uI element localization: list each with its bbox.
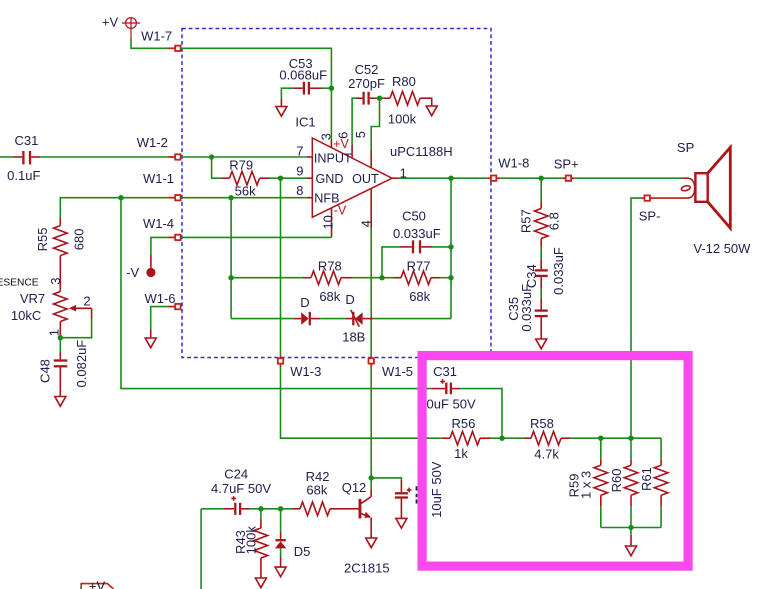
svg-text:PRESENCE: PRESENCE [0,278,39,289]
capacitor C48 [54,338,68,397]
svg-text:R58: R58 [530,416,554,431]
svg-text:+V: +V [89,579,106,589]
wire C24 left column [200,509,202,589]
wire W1-7 row [131,39,169,49]
wire C53 right [322,87,332,89]
svg-text:8: 8 [296,183,303,198]
node D5 top junction [278,506,283,511]
capacitor C52 [356,92,376,105]
node R43 top junction [258,506,263,511]
pin W1-7 [169,46,181,51]
resistor R80 [384,91,432,106]
node R77/out column junction [448,275,453,280]
svg-text:Q12: Q12 [342,480,367,495]
wiper wire [60,318,91,338]
magenta highlight box [422,356,688,566]
svg-text:R60: R60 [609,468,624,492]
resistor R42 [292,502,359,516]
svg-text:9: 9 [296,163,303,178]
svg-text:W1-4: W1-4 [143,216,174,231]
dashed selection box [182,29,491,358]
svg-text:+V: +V [102,15,119,30]
svg-text:C31: C31 [14,133,38,148]
pin W1-3 [278,355,283,366]
capacitor C31 input [14,151,40,164]
capacitor C53 [292,82,321,95]
svg-text:OUT: OUT [352,172,379,186]
svg-text:0.082uF: 0.082uF [74,340,89,388]
wire junction down to pin 5 [371,98,379,150]
svg-text:100k: 100k [388,111,417,126]
svg-text:INPUT: INPUT [314,151,352,165]
wire W1-4 to pin 10 [181,236,332,238]
svg-text:5: 5 [353,131,368,138]
capacitor 10uF 50V [395,480,412,518]
svg-text:4: 4 [359,220,374,227]
svg-text:R80: R80 [392,74,416,89]
node R78/R77 junction [379,275,384,280]
wire C53 left [281,88,292,98]
resistor R61 [654,438,668,527]
svg-text:IC1: IC1 [295,115,315,130]
svg-text:10uF 50V: 10uF 50V [429,461,444,518]
svg-text:R55: R55 [35,227,50,251]
power -V [146,255,155,277]
resistor R77 [382,271,451,285]
capacitor C35 [535,289,548,339]
ground under C35 [536,339,547,349]
potentiometer VR7 [54,292,92,338]
node R59 top junction [598,436,603,441]
svg-text:W1-1: W1-1 [143,171,174,186]
wire W1-5 down to Q12 collector [370,367,372,489]
svg-text:68k: 68k [306,482,327,497]
global label +V bottom [81,579,114,589]
svg-text:10uF 50V: 10uF 50V [419,397,476,412]
ground under C53 [276,99,287,117]
wire R56 feedback drop [460,389,502,439]
wire pin4 column to W1-5 [370,228,372,355]
node R56/C31 junction [499,436,504,441]
ground under cap [396,518,407,528]
svg-text:7: 7 [296,143,303,158]
hidden ref marks [416,486,418,503]
svg-text:R79: R79 [229,157,253,172]
pin W1-8 [487,176,500,181]
wire diode row right [373,318,451,320]
wire C52 right junction [376,97,384,99]
node OUT junction [448,176,453,181]
pin W1-4 [169,235,181,240]
op-amp U1 [306,138,399,237]
wire OUT row [399,177,487,179]
wire collector row [371,478,401,480]
svg-text:uPC1188H: uPC1188H [390,144,453,159]
svg-text:C48: C48 [37,359,52,383]
pin SP- [641,195,653,200]
svg-text:R77: R77 [407,259,431,274]
resistor R55 [54,218,68,292]
resistor R43 [254,509,268,588]
svg-text:18B: 18B [342,330,365,345]
svg-text:680: 680 [71,229,86,251]
svg-text:0.068uF: 0.068uF [279,68,327,83]
wire between diodes [320,318,346,320]
diode D 18B [346,310,373,327]
wire bottom row R59-R61 [601,527,661,529]
wire C50 right [432,246,451,248]
svg-text:R57: R57 [519,209,534,233]
svg-text:W1-6: W1-6 [144,291,175,306]
svg-text:3: 3 [318,133,333,140]
svg-text:4.7k: 4.7k [534,447,559,462]
node R60 top junction [628,436,633,441]
capacitor C24 [224,496,249,515]
svg-text:68k: 68k [409,289,430,304]
power flag +V top-left [122,18,140,39]
svg-text:R78: R78 [318,259,342,274]
svg-text:4.7uF 50V: 4.7uF 50V [211,481,271,496]
svg-text:C31: C31 [433,364,457,379]
wire W1-3 down to R56 row [281,367,442,439]
node input/R79 junction [209,154,214,159]
node Q12 collector junction [369,475,374,480]
svg-text:W1-2: W1-2 [137,135,168,150]
resistor R79 [212,157,307,185]
svg-text:1k: 1k [454,446,468,461]
wire W1-1 row / NFB [60,198,168,218]
svg-text:C50: C50 [402,208,426,223]
speaker SP [672,147,730,228]
wire +V rail to pin 3 [181,48,332,140]
capacitor C50 [401,240,433,253]
svg-text:W1-7: W1-7 [141,28,172,43]
svg-text:D: D [300,295,309,310]
svg-text:W1-8: W1-8 [498,155,529,170]
pin W1-2 [169,154,181,159]
resistor R58 [524,431,661,445]
wire SP- column [631,198,641,438]
node W1-1/feedback junction [118,195,123,200]
svg-text:270pF: 270pF [348,76,385,91]
svg-text:1 x 3: 1 x 3 [578,471,593,499]
svg-text:-V: -V [126,265,139,280]
diode D [231,312,320,326]
wire base row [201,508,224,510]
svg-text:10: 10 [320,215,335,229]
svg-text:3: 3 [48,277,63,284]
resistor R78 [231,271,382,285]
pin W1-1 [169,195,181,200]
svg-text:0.1uF: 0.1uF [7,168,40,183]
wire out column [450,178,452,318]
svg-text:0.033uF: 0.033uF [393,226,441,241]
wire C52 left to pin 6 [352,98,356,145]
resistor R56 [442,431,524,445]
resistor R59 [594,438,608,527]
svg-text:D: D [345,292,354,307]
pin SP+ [562,176,574,181]
svg-text:VR7: VR7 [20,291,45,306]
svg-text:R56: R56 [451,416,475,431]
wire W1-4 row [151,237,169,255]
svg-text:6.8: 6.8 [547,212,562,230]
ground under R80 [426,106,437,116]
node VR7 pin1 junction [58,335,63,340]
svg-text:C24: C24 [224,466,248,481]
wire W1-2 to pin7 [181,156,306,158]
svg-text:R61: R61 [639,467,654,491]
svg-text:0.033uF: 0.033uF [551,247,566,295]
pin W1-6 with ground [169,304,181,309]
node C50 right junction [448,244,453,249]
svg-text:SP-: SP- [639,208,661,223]
svg-text:56k: 56k [235,184,256,199]
ground under C48 [55,397,66,407]
svg-text:1: 1 [47,329,62,336]
node R57 top junction [539,176,544,181]
svg-text:D5: D5 [294,544,311,559]
svg-text:68k: 68k [319,289,340,304]
svg-text:SP+: SP+ [554,157,579,172]
svg-text:V-12 50W: V-12 50W [693,241,751,256]
svg-text:W1-3: W1-3 [290,364,321,379]
svg-text:2: 2 [83,294,90,309]
svg-text:C52: C52 [355,62,379,77]
transistor Q12 [359,489,372,538]
svg-text:100k: 100k [244,526,259,555]
svg-text:SP: SP [677,140,694,155]
capacitor C34 [535,260,548,289]
diode D5 [275,509,286,577]
svg-text:W1-5: W1-5 [382,364,413,379]
svg-text:10kC: 10kC [11,308,41,323]
svg-text:GND: GND [316,172,344,186]
wire C50 left [382,247,401,278]
capacitor C31 10uF [432,379,461,394]
junction C53/pin3 [329,86,334,91]
node R79/GND pin junction [278,176,283,181]
svg-text:6: 6 [335,132,350,139]
wire R79 column to W1-3 [280,178,282,355]
svg-text:-V: -V [334,204,347,218]
ground under Q12 emitter [366,538,377,548]
pin W1-5 [369,355,374,366]
wire long feedback row [121,198,432,389]
svg-text:2C1815: 2C1815 [344,561,390,576]
ground under R60 [626,528,637,556]
node R60 bottom junction [628,525,633,530]
svg-text:0.033uF: 0.033uF [519,284,534,332]
resistor R60 [624,438,638,527]
wire input row [0,156,14,158]
wire NFB column x=231 [230,198,232,319]
resistor R57 [534,178,548,260]
node NFB junction [228,195,233,200]
